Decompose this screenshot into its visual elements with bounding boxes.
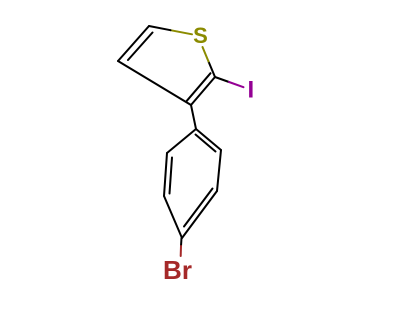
phenyl P1-P2 double — [196, 129, 221, 150]
wire S-C5 — [171, 30, 193, 34]
phenyl P6-P1 — [167, 129, 196, 153]
svg-text:I: I — [247, 77, 254, 104]
wire C3-P1 — [191, 105, 196, 129]
wire C4-C3 — [118, 61, 191, 105]
wire C5-C4 double — [118, 26, 149, 61]
wire C2-S — [209, 62, 216, 78]
phenyl P2-P3 — [217, 150, 221, 191]
wire C3-C2 double — [191, 77, 215, 105]
phenyl P3-P4 double — [182, 191, 217, 238]
svg-text:S: S — [193, 23, 208, 48]
svg-text:Br: Br — [163, 255, 192, 285]
phenyl P4-P5 — [164, 196, 182, 238]
phenyl P5-P6 double — [164, 153, 167, 196]
wire C2-I — [215, 77, 229, 82]
wire P4-Br — [180, 238, 183, 246]
